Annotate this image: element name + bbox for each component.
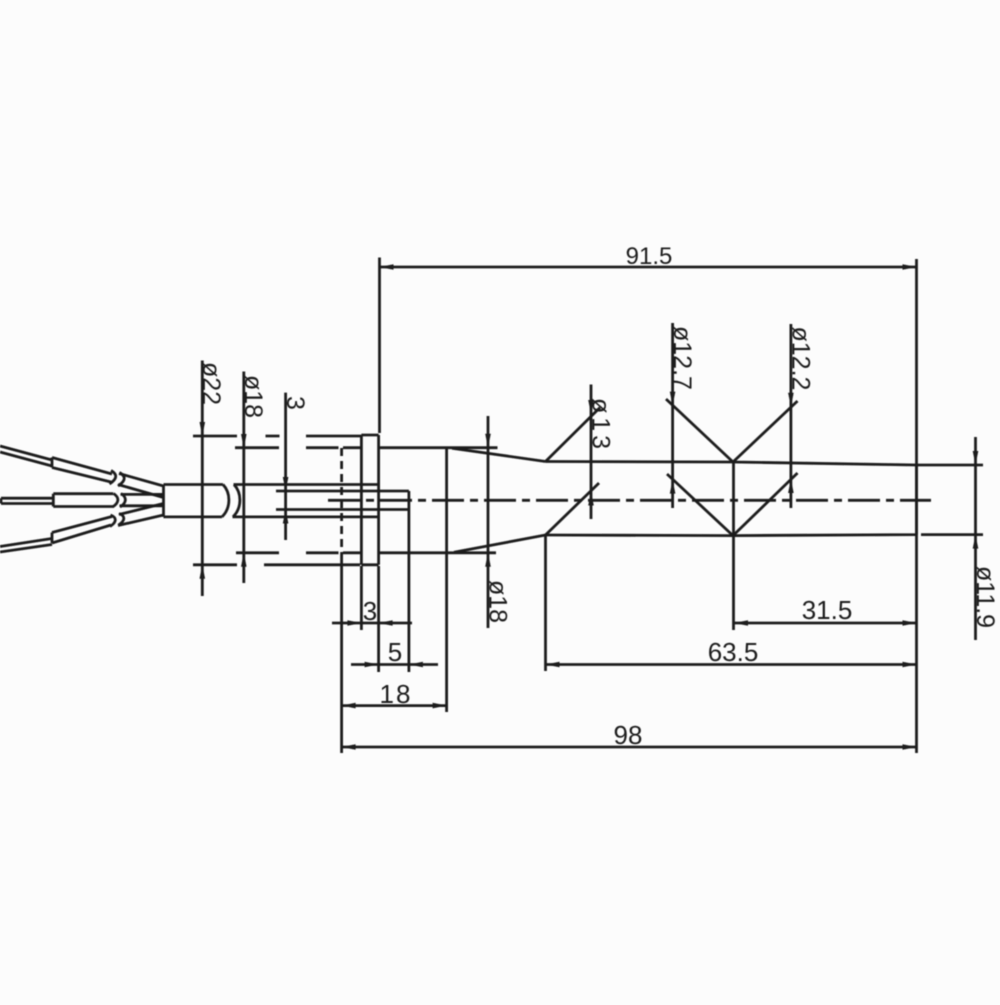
wire W1 top lead: bare tip xyxy=(0,446,52,466)
cone-cylinder junction + 18 extension line xyxy=(445,448,448,712)
wire W2 middle lead: bare tip xyxy=(1,498,53,503)
ø12.2 arrows xyxy=(788,393,794,407)
svg-text:3: 3 xyxy=(363,596,377,626)
arrowheads xyxy=(200,264,979,750)
leader V arms lower xyxy=(667,473,798,536)
svg-text:ø18: ø18 xyxy=(484,580,512,623)
tube outline xyxy=(546,462,917,536)
svg-text:98: 98 xyxy=(614,720,643,750)
dim 98 xyxy=(342,553,917,753)
dimension labels xyxy=(363,243,853,750)
wire W2 ferrule xyxy=(53,494,113,507)
dim ø3 pin vertical xyxy=(284,393,287,540)
leader V arms upper xyxy=(666,399,798,462)
cable sleeve outline xyxy=(164,485,379,517)
svg-text:63.5: 63.5 xyxy=(708,637,759,667)
svg-text:ø13: ø13 xyxy=(587,398,615,453)
dim 18 xyxy=(342,704,447,707)
svg-text:31.5: 31.5 xyxy=(802,595,853,625)
wire W3 bottom lead: bare tip xyxy=(0,539,52,553)
flange ø22 witness lines xyxy=(193,436,361,565)
ø18 left arrows xyxy=(241,434,247,448)
wire W3 insulation to sleeve xyxy=(118,504,164,526)
svg-text:91.5: 91.5 xyxy=(626,243,673,270)
svg-text:ø11.9: ø11.9 xyxy=(971,566,999,628)
dim ø12.7 vertical xyxy=(671,323,674,508)
3 arrows (outside) xyxy=(347,620,361,626)
ø11.9 arrows xyxy=(973,451,979,465)
body ø18 bottom edge + witness segments xyxy=(236,551,496,554)
dim 5 xyxy=(351,510,438,673)
5 arrows (outside) xyxy=(365,662,379,668)
centerline xyxy=(328,499,931,502)
wire W1 insulation to sleeve xyxy=(118,474,164,498)
body ø18 top edge + witness segments xyxy=(235,446,498,449)
ø18 bottom arrows xyxy=(485,434,491,448)
dim ø18 left vertical xyxy=(242,372,245,584)
63.5 arrows xyxy=(546,662,560,668)
svg-text:ø18: ø18 xyxy=(239,375,267,418)
91.5 arrows xyxy=(380,264,394,270)
wire W2 break symbol xyxy=(113,494,126,508)
18 arrows xyxy=(342,703,356,709)
flange xyxy=(361,435,378,565)
31.5 arrows xyxy=(734,620,748,626)
ø13 arrows xyxy=(588,400,594,414)
dim 3 flange xyxy=(332,566,412,672)
wire W2 insulation to sleeve xyxy=(120,494,164,505)
dim ø12.2 vertical xyxy=(790,324,793,508)
taper cone xyxy=(452,448,546,552)
wire W3 break symbol xyxy=(110,514,124,527)
svg-text:ø12.2: ø12.2 xyxy=(787,327,815,391)
wire W1 ferrule xyxy=(52,458,112,483)
svg-text:18: 18 xyxy=(380,679,413,709)
dim ø22 vertical xyxy=(201,361,204,597)
wire W3 ferrule xyxy=(52,517,112,544)
svg-text:3: 3 xyxy=(281,396,309,410)
dim ø18 bottom vertical xyxy=(487,416,490,628)
dim 91.5 xyxy=(380,258,917,754)
svg-text:5: 5 xyxy=(388,637,402,667)
98 arrows xyxy=(342,744,356,750)
ø3 arrows xyxy=(283,477,289,491)
dim 31.5 xyxy=(734,462,917,630)
svg-text:ø12.7: ø12.7 xyxy=(668,326,696,390)
sleeve break symbol xyxy=(222,485,240,517)
knurl boundary (dashed) xyxy=(340,448,343,553)
dim ø11.9 vertical + witness xyxy=(917,437,984,640)
dim ø13 vertical + leader diagonals xyxy=(546,385,601,536)
ø22 arrows xyxy=(200,422,206,436)
pin (ø3) with witness lines xyxy=(276,491,409,510)
wire W1 break symbol xyxy=(110,471,125,487)
dim 63.5 xyxy=(546,535,917,671)
ø12.7 arrows xyxy=(670,392,676,406)
svg-text:ø22: ø22 xyxy=(197,362,225,405)
